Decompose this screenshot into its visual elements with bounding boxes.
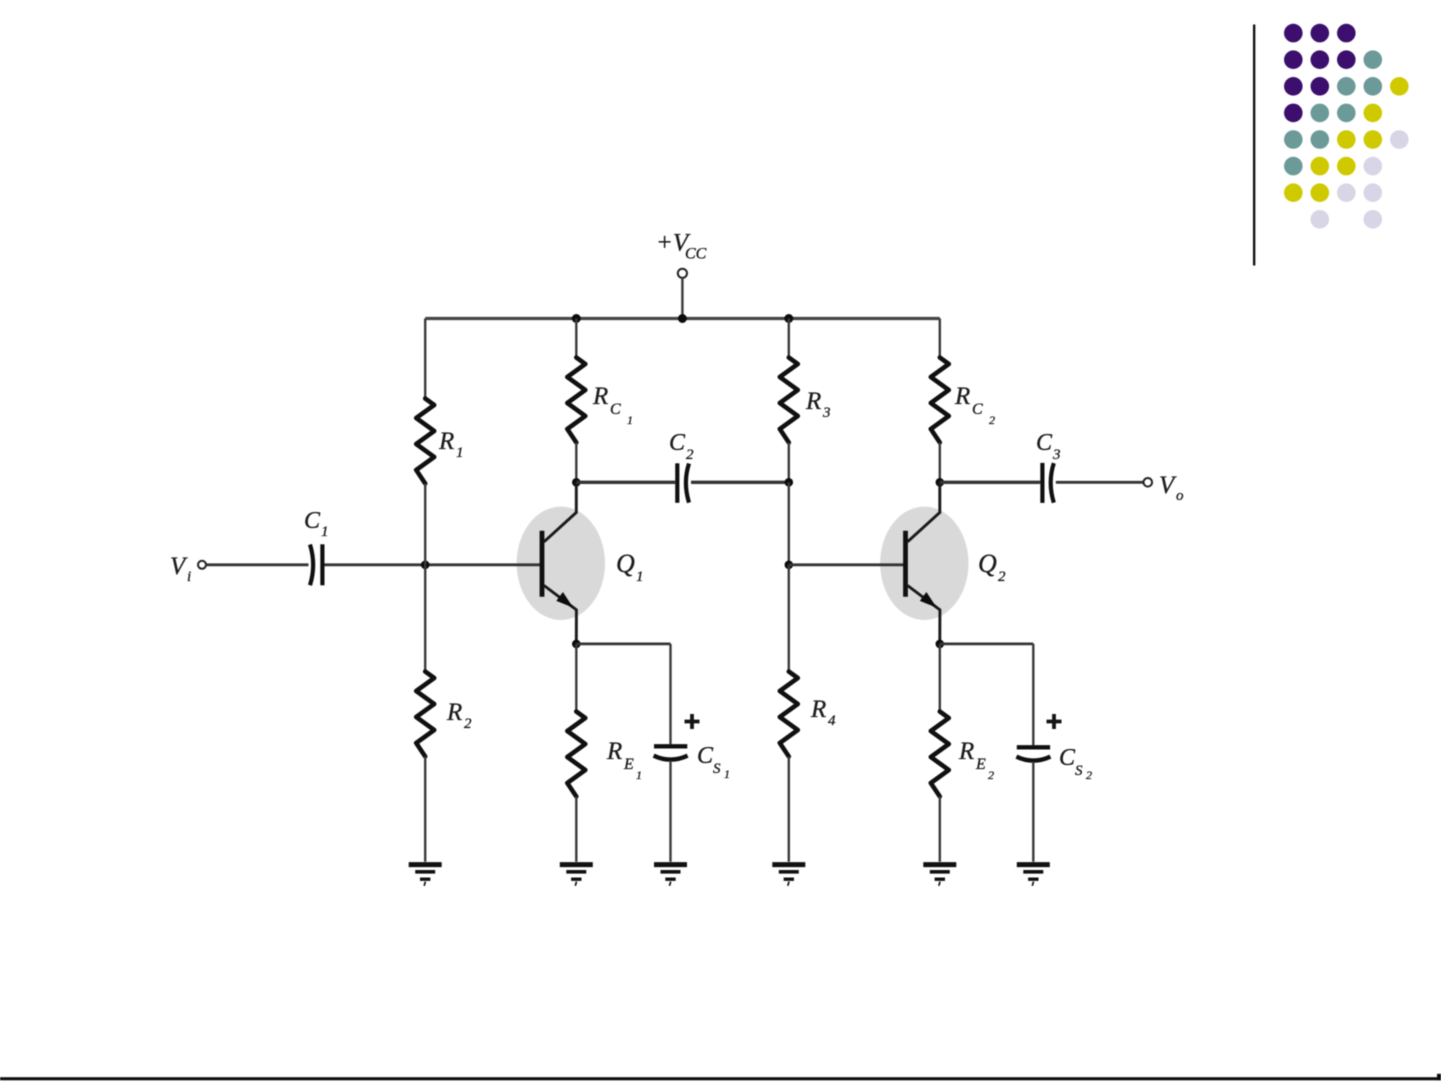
wire rail to RC2 [939,319,941,358]
svg-text:1: 1 [636,768,642,782]
label RC1 [592,383,633,427]
ground below R4 [772,865,805,886]
transistor Q1 base bar [540,531,545,597]
ground below RE2 [923,865,956,886]
junction RC1 column on rail [572,314,581,323]
label CS2 [1059,745,1092,782]
resistor R3 [780,358,798,443]
ground below R2 [409,865,442,886]
svg-text:Q: Q [616,549,635,578]
label CS1 [697,743,730,781]
resistor R4 [780,672,798,757]
svg-text:2: 2 [464,716,472,732]
ground below CS2 [1017,865,1050,886]
wire R3 to C2 node [788,443,790,483]
Q1 emitter arrow [556,592,573,608]
label Q2 [978,549,1006,585]
label R3 [805,388,831,421]
wire input node to R2 [424,565,426,672]
VCC terminal [678,269,687,278]
svg-text:S: S [1075,763,1083,779]
wire R2 to ground [424,757,426,862]
wire C3 to output terminal [1056,481,1144,484]
wire rail to R1 [424,319,426,399]
wire emitter node to RE2 [939,644,941,712]
Q2 emitter arrow [920,592,937,608]
junction Q1 collector node [572,478,581,487]
wire RC2 to collector node [939,443,941,483]
wire Q2 emitter lead [908,586,940,644]
svg-text:2: 2 [989,413,995,427]
wire top supply rail [425,317,940,320]
label RE2 [958,738,994,782]
resistor RC1 [567,358,585,443]
svg-text:S: S [713,761,721,777]
wire RE2 to ground [939,797,941,862]
svg-text:R: R [592,383,608,410]
junction Q2 collector node [936,478,945,487]
svg-text:1: 1 [627,413,633,427]
svg-text:2: 2 [1086,768,1092,782]
wire RC1 to collector node [575,443,577,483]
ground below RE1 [560,865,593,886]
svg-text:R: R [958,738,974,765]
wire emitter node to CS2 branch [940,643,1034,646]
wire emitter node to RE1 [575,644,577,712]
svg-text:i: i [187,569,191,585]
wire CS2 branch down [1032,644,1034,745]
label +VCC [656,230,707,263]
capacitor C1 [310,544,322,585]
wire CS2 to ground [1032,762,1034,862]
label C2 [669,430,694,463]
wire Q2 base wire [789,563,906,566]
wire R1 to input node [424,484,426,565]
wire C1 to base node [325,563,542,566]
wire Vi to C1 [206,563,308,566]
svg-text:Q: Q [978,549,997,578]
svg-text:3: 3 [1052,447,1061,463]
svg-text:C: C [610,401,621,418]
svg-text:R: R [438,428,454,455]
svg-text:R: R [810,696,826,723]
junction input node at R1-R2 column [421,561,430,570]
svg-text:1: 1 [636,569,644,585]
wire Q2 collector lead [908,482,940,542]
wire Q2 collector node to C3 [940,481,1041,484]
junction Q2 emitter node [936,640,945,649]
svg-text:2: 2 [988,768,994,782]
label RC2 [954,383,995,427]
junction R3 column on rail [784,314,793,323]
wire C2 to R3 column [691,481,789,484]
wire base node to R4 [788,565,790,672]
wire emitter node to CS1 branch [576,643,670,646]
label Vi [170,553,191,585]
Vo output terminal [1144,478,1153,487]
transistor Q1 body [517,507,605,620]
wire CS1 branch down [669,644,671,744]
junction C2-R3 node [785,478,794,487]
label R1 [438,428,464,461]
label CS1 plus sign [685,714,700,729]
wire Q1 emitter lead [544,586,576,644]
capacitor CS1 [654,746,688,759]
label Vo [1159,472,1184,504]
label CS2 plus sign [1047,714,1062,729]
svg-text:C: C [697,743,714,769]
Vi input terminal [198,561,206,569]
wire C2 node to Q2 base node [788,482,790,565]
svg-text:R: R [606,738,622,765]
svg-text:C: C [304,508,321,534]
junction Q1 emitter node [572,640,581,649]
svg-text:4: 4 [828,713,836,729]
svg-text:C: C [669,430,686,456]
wire CS1 to ground [669,761,671,862]
wire Q1 collector lead [544,482,576,542]
label Q1 [616,549,644,585]
svg-text:1: 1 [321,524,329,540]
wire R4 to ground [788,757,790,862]
svg-text:1: 1 [456,445,464,461]
capacitor C2 [677,463,689,503]
junction VCC on rail [678,314,687,323]
wire rail to RC1 [575,319,577,358]
svg-text:V: V [170,553,188,580]
junction Q2 base node [785,561,794,570]
transistor Q2 base bar [903,531,908,597]
svg-text:1: 1 [724,767,730,781]
resistor R2 [416,672,434,757]
capacitor CS2 [1016,747,1050,760]
svg-text:C: C [972,401,983,418]
svg-text:2: 2 [686,447,694,463]
label C1 [304,508,329,540]
svg-text:E: E [623,756,634,773]
resistor RC2 [931,358,949,443]
svg-text:V: V [1159,472,1177,499]
svg-text:R: R [446,699,462,726]
label R2 [446,699,472,732]
svg-text:o: o [1176,488,1184,504]
wire collector node to C2 [576,481,675,484]
resistor R1 [416,399,434,484]
label RE1 [606,738,642,782]
svg-text:R: R [954,383,970,410]
wire VCC terminal to rail [681,278,683,319]
svg-text:R: R [805,388,821,415]
transistor Q2 body [880,507,968,620]
resistor RE2 [931,712,949,797]
svg-text:2: 2 [998,569,1006,585]
ground below CS1 [654,865,687,886]
label C3 [1036,430,1061,463]
wire rail to R3 [788,319,790,358]
svg-text:3: 3 [822,405,831,421]
svg-text:C: C [1059,745,1076,771]
wire RE1 to ground [575,797,577,862]
svg-text:E: E [975,756,986,773]
capacitor C3 [1042,463,1053,503]
resistor RE1 [567,712,585,797]
svg-text:C: C [1036,430,1053,456]
label R4 [810,696,836,729]
svg-text:CC: CC [685,246,707,263]
